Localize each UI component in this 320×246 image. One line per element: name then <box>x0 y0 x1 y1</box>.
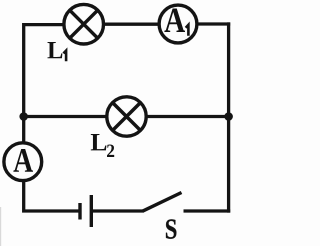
scan smudge left edge <box>0 207 1 246</box>
wire: right vertical <box>227 22 230 212</box>
wire: middle branch left segment <box>24 115 108 118</box>
switch S blade <box>143 193 182 212</box>
battery cell: long plate (positive) <box>90 195 93 227</box>
node: left junction <box>19 112 28 121</box>
wire: left vertical below ammeter A + bottom-left corner <box>24 180 80 212</box>
battery cell: short plate (negative) <box>78 203 81 220</box>
lamp L2 <box>107 97 146 136</box>
wire: left vertical between junction and ammeter A <box>22 117 25 145</box>
wire: middle branch right segment <box>146 115 229 118</box>
lamp L1 <box>64 4 104 44</box>
ammeter A <box>4 143 42 181</box>
label L1 <box>47 42 66 61</box>
label S <box>166 219 176 238</box>
node: right junction <box>224 112 233 121</box>
ammeter A1 <box>159 5 197 43</box>
wire: L1 to A1 <box>103 23 160 26</box>
wire: switch to bottom-right corner <box>184 209 231 212</box>
wire: battery to switch <box>91 209 143 212</box>
label L2 <box>91 134 114 157</box>
wire: A1 to top-right corner <box>196 22 230 25</box>
wire: left vertical upper + top horizontal to L1 <box>24 25 65 114</box>
